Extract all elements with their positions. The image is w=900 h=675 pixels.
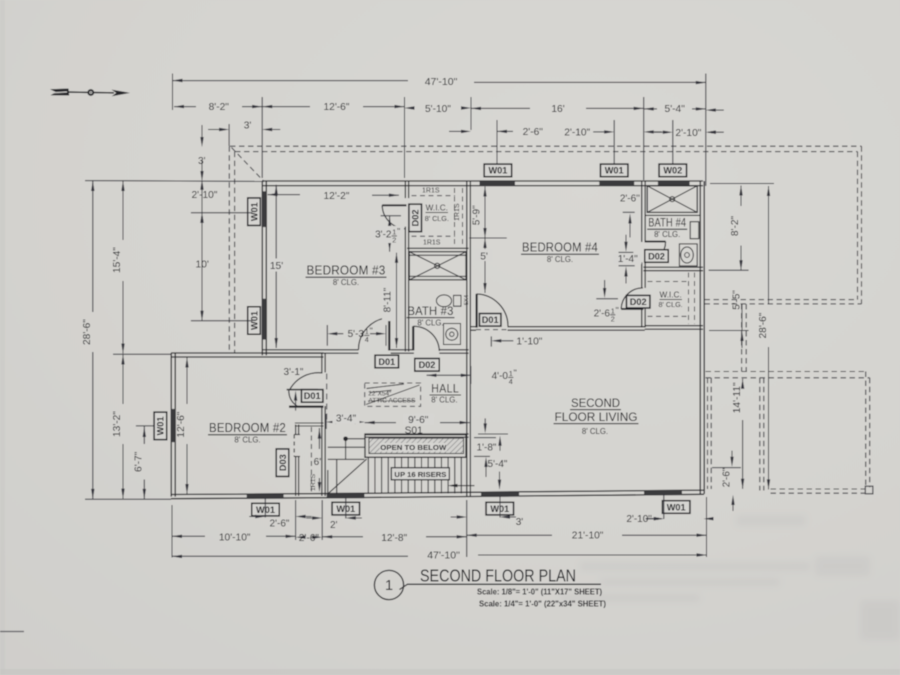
svg-text:2'-10": 2'-10": [564, 128, 590, 139]
svg-text:12'-2": 12'-2": [324, 191, 350, 202]
svg-text:2: 2: [392, 236, 396, 245]
svg-text:8' CLG.: 8' CLG.: [417, 318, 443, 327]
svg-text:D02: D02: [419, 360, 436, 370]
svg-text:D02: D02: [630, 297, 647, 307]
svg-text:W01: W01: [605, 166, 624, 176]
svg-text:W01: W01: [156, 416, 166, 435]
svg-text:5': 5': [480, 252, 488, 263]
svg-text:W01: W01: [488, 166, 507, 176]
svg-text:8' CLG.: 8' CLG.: [425, 214, 449, 223]
svg-text:SECOND: SECOND: [571, 396, 620, 410]
svg-text:BEDROOM #2: BEDROOM #2: [209, 421, 286, 435]
svg-text:5'-5": 5'-5": [732, 290, 743, 310]
svg-text:5X4: 5X4: [464, 294, 470, 305]
svg-text:BEDROOM #3: BEDROOM #3: [307, 264, 386, 278]
svg-text:SECOND FLOOR PLAN: SECOND FLOOR PLAN: [420, 566, 576, 586]
svg-text:FLOOR LIVING: FLOOR LIVING: [555, 410, 638, 424]
svg-text:1'-10": 1'-10": [516, 337, 542, 348]
svg-text:": ": [370, 326, 373, 336]
svg-text:4: 4: [365, 335, 369, 344]
svg-text:16': 16': [551, 104, 564, 115]
svg-text:6'-7": 6'-7": [134, 451, 145, 472]
svg-text:9'-6": 9'-6": [408, 415, 429, 426]
svg-text:15'-4": 15'-4": [112, 247, 123, 273]
svg-text:8'-2": 8'-2": [730, 215, 741, 236]
svg-text:D03: D03: [278, 454, 288, 471]
svg-text:2': 2': [330, 520, 338, 531]
svg-text:2'-10": 2'-10": [192, 190, 218, 201]
svg-text:1'-8": 1'-8": [477, 443, 497, 454]
svg-text:Scale: 1/4"= 1'-0" (22"x34" SH: Scale: 1/4"= 1'-0" (22"x34" SHEET): [479, 598, 606, 608]
svg-text:5'-4": 5'-4": [488, 459, 508, 470]
svg-text:8' CLG.: 8' CLG.: [654, 230, 680, 239]
svg-text:BATH #4: BATH #4: [648, 216, 686, 230]
svg-text:8' CLG.: 8' CLG.: [659, 300, 683, 309]
svg-text:HALL: HALL: [431, 382, 459, 396]
svg-text:12'-6": 12'-6": [324, 102, 350, 113]
svg-text:D01: D01: [378, 357, 395, 367]
svg-text:6': 6': [314, 457, 322, 468]
svg-text:5'-4": 5'-4": [665, 104, 686, 115]
svg-text:1R1S: 1R1S: [422, 187, 440, 194]
svg-text:3': 3': [244, 120, 252, 131]
svg-text:2: 2: [611, 315, 615, 324]
svg-text:D01: D01: [482, 315, 499, 325]
svg-text:3'-1": 3'-1": [284, 367, 304, 378]
svg-text:1: 1: [385, 578, 393, 594]
svg-text:3'-4": 3'-4": [336, 413, 357, 424]
svg-text:8' CLG.: 8' CLG.: [582, 427, 608, 436]
svg-text:8'-2": 8'-2": [209, 102, 230, 113]
svg-text:10'-10": 10'-10": [219, 533, 251, 544]
svg-text:47'-10": 47'-10": [427, 549, 460, 561]
svg-text:13'-2": 13'-2": [112, 411, 123, 437]
svg-text:": ": [616, 306, 619, 316]
svg-text:8' CLG.: 8' CLG.: [234, 436, 260, 445]
svg-text:OPEN TO BELOW: OPEN TO BELOW: [380, 443, 447, 452]
svg-text:5'-3: 5'-3: [348, 329, 365, 340]
svg-text:8' CLG.: 8' CLG.: [333, 278, 359, 287]
svg-text:21'-10": 21'-10": [572, 531, 604, 542]
svg-text:28'-6": 28'-6": [758, 312, 769, 338]
svg-text:3': 3': [198, 156, 206, 167]
svg-text:W01: W01: [667, 502, 686, 512]
svg-text:BEDROOM #4: BEDROOM #4: [522, 241, 598, 255]
svg-text:1R1S: 1R1S: [454, 203, 461, 221]
svg-text:47'-10": 47'-10": [425, 76, 458, 88]
svg-text:1R1S: 1R1S: [310, 474, 317, 491]
svg-text:8' CLG.: 8' CLG.: [547, 255, 573, 264]
svg-text:2'-6": 2'-6": [722, 467, 733, 487]
svg-text:4'-0: 4'-0: [492, 371, 509, 382]
svg-text:": ": [514, 368, 517, 378]
svg-text:W01: W01: [249, 202, 259, 221]
svg-text:10': 10': [196, 259, 209, 270]
svg-text:": ": [397, 227, 400, 237]
svg-text:D01: D01: [304, 391, 321, 401]
svg-text:2'-10": 2'-10": [626, 514, 652, 525]
svg-text:15': 15': [270, 261, 283, 272]
svg-text:UP 16 RISERS: UP 16 RISERS: [394, 470, 446, 479]
svg-text:12'-6": 12'-6": [176, 411, 187, 437]
svg-text:8' CLG.: 8' CLG.: [431, 395, 457, 404]
svg-text:D02: D02: [648, 251, 665, 261]
svg-text:2'-6": 2'-6": [523, 127, 544, 138]
svg-text:5'-10": 5'-10": [425, 104, 451, 115]
svg-text:S01: S01: [405, 426, 423, 437]
svg-text:3'-2: 3'-2: [375, 230, 392, 241]
svg-text:2'-6: 2'-6: [594, 308, 611, 319]
svg-text:D02: D02: [411, 209, 421, 226]
svg-text:W.I.C.: W.I.C.: [426, 204, 448, 213]
svg-text:2'-6": 2'-6": [299, 533, 320, 544]
svg-text:14'-11": 14'-11": [732, 382, 743, 413]
svg-text:BATH #3: BATH #3: [408, 304, 454, 318]
svg-text:3': 3': [516, 517, 524, 528]
svg-text:5'-9": 5'-9": [471, 205, 482, 225]
svg-text:4: 4: [509, 377, 513, 386]
svg-text:W.I.C.: W.I.C.: [659, 291, 681, 300]
svg-text:2'-10": 2'-10": [675, 128, 701, 139]
svg-text:12'-8": 12'-8": [381, 533, 407, 544]
svg-text:1'-4": 1'-4": [618, 254, 638, 265]
svg-text:1R1S: 1R1S: [423, 240, 441, 247]
svg-text:2'-6": 2'-6": [270, 519, 290, 530]
svg-text:28'-6": 28'-6": [82, 319, 93, 345]
svg-text:8'-11": 8'-11": [383, 287, 394, 312]
svg-text:2'-6": 2'-6": [620, 194, 640, 205]
svg-text:Scale: 1/8"= 1'-0" (11"X17" SH: Scale: 1/8"= 1'-0" (11"X17" SHEET): [477, 587, 602, 597]
svg-text:W02: W02: [663, 166, 682, 176]
